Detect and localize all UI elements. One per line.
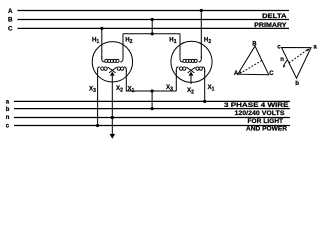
svg-text:n: n: [280, 57, 284, 63]
svg-text:C: C: [8, 26, 13, 33]
svg-text:3 PHASE 4 WIRE: 3 PHASE 4 WIRE: [224, 102, 289, 109]
T2 center-tap arrow: [189, 72, 194, 76]
line b secondary bus: [14, 108, 290, 110]
transformer T2 circle: [171, 41, 212, 82]
transformer T1 circle: [92, 42, 132, 82]
node: junction dot on line b: [151, 107, 154, 110]
n pointer arrow: [284, 60, 287, 65]
transformer T2 secondary left coil: [176, 67, 178, 72]
wire: T1 X2 neutral lead: [111, 76, 113, 136]
line a secondary bus: [14, 100, 290, 102]
wire: T1 secondary crossover X: [108, 67, 116, 73]
svg-text:PRIMARY: PRIMARY: [254, 22, 287, 29]
transformer T1 primary coil: [102, 56, 105, 62]
node: junction dot on bar: [151, 32, 154, 35]
svg-text:AND POWER: AND POWER: [246, 126, 287, 133]
node: junction dot T1-X3 on line c: [96, 124, 99, 127]
phasor triangle secondary abc: [282, 48, 312, 79]
T1 center-tap arrow: [110, 72, 115, 76]
svg-text:B: B: [252, 41, 257, 47]
wire: T2 X3 lead: [175, 70, 177, 91]
transformer T1 secondary left coil: [98, 67, 100, 72]
wire: drop from line B to bar: [151, 20, 153, 34]
phasor triangle primary ABC: [238, 46, 269, 75]
line n secondary bus: [14, 117, 290, 119]
ground arrow on neutral: [110, 134, 114, 138]
wire: T1 X1 lead: [126, 70, 176, 91]
node: junction dot T1-X2 on line n: [111, 116, 114, 119]
wire: drop from X1/X3 junction to line b: [151, 91, 153, 109]
wire: T1 H2 lead to bar: [122, 34, 124, 59]
dashed arrow to a: [289, 50, 308, 63]
node: junction dot T2-X1 on line a: [203, 100, 206, 103]
svg-text:DELTA: DELTA: [262, 13, 287, 20]
wire: T2 H2 lead from line A: [200, 11, 202, 59]
node: junction dot at X1/X3 tie: [151, 89, 154, 92]
transformer T2 primary coil: [180, 56, 183, 62]
wire: T2 X2 stub: [190, 76, 192, 84]
svg-text:A: A: [234, 71, 239, 77]
transformer T2 secondary right coil: [202, 67, 204, 72]
wire: T2 X1 lead down to line a: [204, 70, 206, 101]
wire: T1 H1 lead from line C: [101, 28, 103, 58]
svg-text:FOR LIGHT: FOR LIGHT: [248, 118, 284, 125]
svg-text:120/240 VOLTS: 120/240 VOLTS: [235, 110, 285, 117]
line c secondary bus: [14, 125, 290, 127]
svg-text:C: C: [269, 71, 274, 77]
svg-text:b: b: [6, 107, 10, 113]
svg-text:n: n: [6, 115, 10, 121]
phase C bus line: [18, 27, 290, 29]
svg-text:b: b: [295, 81, 299, 87]
node: junction dot T2-H2 on line A: [200, 9, 203, 12]
phase A bus line: [18, 10, 290, 12]
node: junction dot T1-H1 on line C: [100, 27, 103, 30]
node: junction dot on line B: [151, 18, 154, 21]
wire: T1 X3 lead down to line c: [97, 70, 99, 126]
wire: H2-H1 interconnect bar: [123, 33, 180, 35]
wire: T2 H1 lead to bar: [179, 34, 181, 59]
dashed arrow to A: [241, 60, 262, 73]
svg-text:A: A: [8, 8, 13, 15]
svg-text:B: B: [8, 17, 13, 24]
wire: T2 secondary crossover X: [187, 67, 195, 73]
phase B bus line: [18, 19, 290, 21]
transformer T1 secondary right coil: [124, 67, 126, 72]
